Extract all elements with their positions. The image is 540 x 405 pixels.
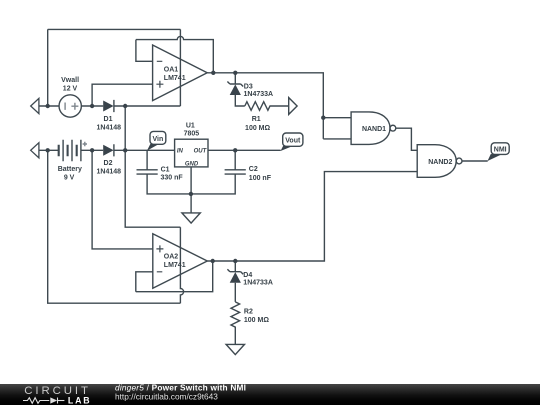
svg-text:Battery: Battery	[58, 166, 82, 173]
svg-text:OUT: OUT	[194, 149, 208, 155]
svg-text:330 nF: 330 nF	[161, 175, 184, 182]
svg-text:http://circuitlab.com/cz9t643: http://circuitlab.com/cz9t643	[115, 391, 218, 401]
svg-text:Vin: Vin	[153, 136, 164, 143]
svg-text:D1: D1	[104, 116, 113, 123]
svg-text:100 MΩ: 100 MΩ	[245, 125, 270, 132]
svg-text:D3: D3	[244, 83, 253, 90]
svg-text:D4: D4	[243, 272, 252, 279]
svg-text:LAB: LAB	[68, 395, 91, 405]
svg-text:Vout: Vout	[285, 138, 301, 145]
svg-text:D2: D2	[104, 160, 113, 167]
svg-text:Vwall: Vwall	[61, 77, 79, 84]
svg-text:1N4733A: 1N4733A	[244, 91, 274, 98]
svg-text:12 V: 12 V	[63, 85, 78, 92]
svg-text:NMI: NMI	[494, 147, 507, 154]
svg-text:C2: C2	[249, 166, 258, 173]
svg-text:IN: IN	[177, 149, 184, 155]
svg-text:NAND1: NAND1	[362, 126, 386, 133]
svg-text:LM741: LM741	[164, 75, 186, 82]
svg-text:1N4733A: 1N4733A	[243, 280, 273, 287]
svg-text:GND: GND	[185, 161, 199, 167]
svg-text:R2: R2	[244, 309, 253, 316]
svg-text:LM741: LM741	[164, 262, 186, 269]
svg-text:C1: C1	[161, 167, 170, 174]
svg-text:9 V: 9 V	[64, 175, 75, 182]
svg-text:OA2: OA2	[164, 253, 179, 260]
svg-text:R1: R1	[252, 116, 261, 123]
svg-text:OA1: OA1	[164, 66, 179, 73]
svg-text:1N4148: 1N4148	[97, 125, 122, 132]
svg-text:100 nF: 100 nF	[249, 175, 272, 182]
svg-text:100 MΩ: 100 MΩ	[244, 317, 269, 324]
svg-text:U1: U1	[186, 123, 195, 130]
svg-text:7805: 7805	[184, 131, 200, 138]
svg-text:1N4148: 1N4148	[97, 169, 122, 176]
svg-text:NAND2: NAND2	[428, 159, 452, 166]
